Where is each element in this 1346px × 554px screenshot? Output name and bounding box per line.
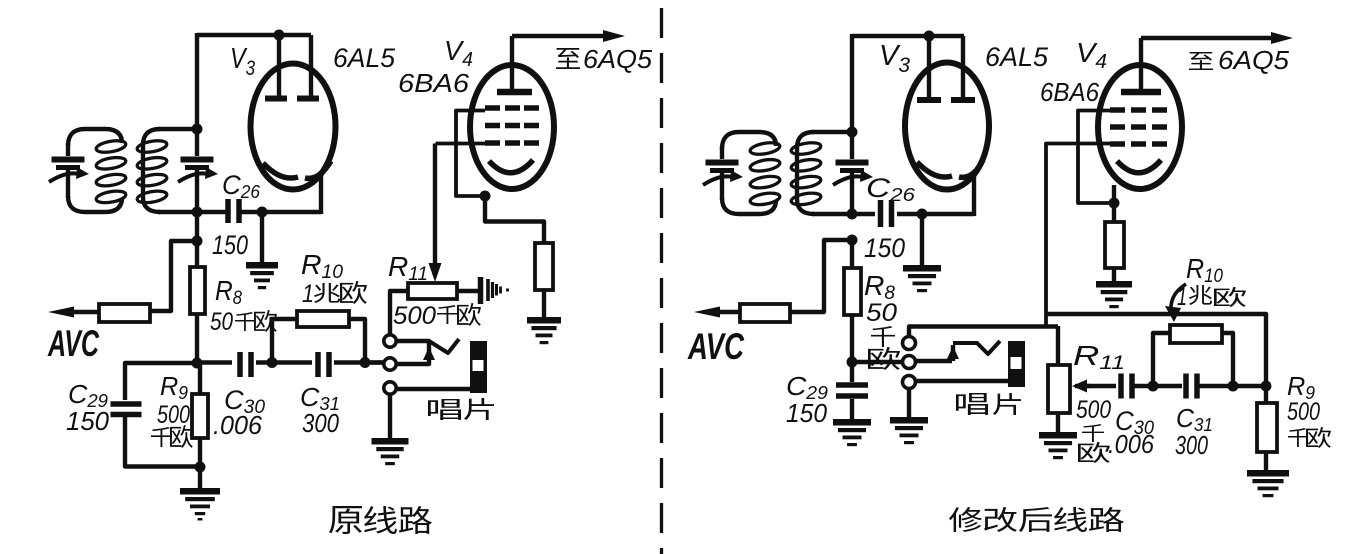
svg-text:.006: .006 [1108,429,1154,459]
wire middle contact [371,360,384,364]
coil of tank 1 right [749,141,780,207]
svg-text:.006: .006 [213,410,263,440]
resistor R9 right [1264,386,1268,403]
jack spring contact right [953,341,1000,354]
tank circuit 1 right [739,132,776,146]
wire top bus right [852,34,964,38]
node top-left junction [274,30,285,41]
resistor V4 cathode bias [535,243,553,290]
switch arm with arrow right [916,359,952,363]
wire bottom contact to cartridge right [915,379,1008,383]
wire to AVC resistor [150,241,197,311]
wire to ground right [920,214,924,265]
wire to 6AQ5 with arrow [512,34,612,38]
node switch feed right [847,357,858,368]
node cathode junction V4b [1109,198,1120,209]
capacitor C26 [225,199,231,223]
label to 6AQ5 right [1189,52,1213,70]
wire detector output right [852,212,875,216]
tube V4b envelope [1098,65,1182,189]
node tank top right [847,127,858,138]
wire cathode to resistor [485,196,544,244]
wiper arrow of R11 right [1075,384,1090,388]
grid rows of V4b [1110,107,1125,113]
svg-text:150: 150 [864,233,905,263]
node AVC junction [192,236,203,247]
wire bottom contact to cartridge [396,387,470,391]
tube V4 envelope [470,65,554,189]
node top-right junction [924,31,935,42]
svg-text:AVC: AVC [47,323,100,364]
resistor AVC decoupling [99,304,150,322]
wire top contact to R11 [390,291,409,335]
wire C31 to node [1199,384,1266,388]
potentiometer R11 [408,283,457,299]
svg-text:6AL5: 6AL5 [333,43,396,73]
resistor AVC right [740,304,790,322]
svg-text:300: 300 [302,408,339,438]
wire bottom contact to ground right [907,388,911,417]
node tank bottom right [847,209,858,220]
switch contact top right [903,337,916,350]
tank circuit 1 left [85,129,122,143]
wire C26 to cathode node right [897,212,974,216]
svg-text:6AL5: 6AL5 [985,42,1049,72]
potentiometer R11 right [1048,365,1070,413]
tube V3 envelope [251,64,336,190]
variable capacitor of tank 1 [49,157,89,183]
wire R11 to grid cap [457,289,479,293]
label phono [428,399,461,420]
resistor R8 right [850,240,854,268]
label kohm of R9 [151,427,172,447]
ground under switch right [890,417,928,444]
resistor V4b cathode bias [1105,222,1124,268]
capacitor C30 right [1118,374,1124,399]
capacitor C31 right [1183,374,1189,399]
variable capacitor of tank 1 right [703,160,743,186]
svg-text:150: 150 [66,406,110,436]
switch contact top [384,335,396,347]
cathode arc of V4b [1117,160,1161,173]
capacitor C30 [237,352,243,377]
svg-text:50: 50 [866,299,897,327]
wire C26 to cathode node [239,210,321,214]
wire suppressor bracket [456,111,485,197]
capacitor C29 right [850,362,854,382]
wire AVC takeoff vertical [195,212,199,268]
node cathode junction V4 [480,191,491,202]
node AVC junction right [847,235,858,246]
node C26 output [257,207,268,218]
capacitor C26 right [878,200,884,227]
switch arm with arrow [396,343,429,364]
wire to AVC resistor right [790,240,852,312]
caption original circuit [329,506,362,534]
resistor R10 right branch [1153,333,1170,386]
tube V3b envelope [905,63,989,190]
ground under R11 right [1039,432,1077,459]
wire bottom contact to ground [388,394,392,438]
cathode arcs of V3b [917,162,952,177]
variable capacitor of tank 2 [178,157,218,183]
ground under cathode resistor right [1096,281,1132,308]
wire suppressor bracket right [1078,111,1112,204]
ground under R9 [180,488,220,521]
resistor R10 branch [272,319,297,362]
wire top contact feed right [909,327,1058,338]
wire AVC arrow right [712,310,740,314]
wire to 6AQ5 right with arrow [1141,36,1280,40]
svg-text:6BA6: 6BA6 [398,68,470,98]
wire top contact to arm [396,339,430,343]
coil of tank 1 [95,139,126,205]
ground under cathode resistor [527,317,561,344]
diode plate 2 of V3 [309,35,313,96]
grid rows of V4 [485,105,500,111]
svg-text:6BA6: 6BA6 [1040,77,1099,107]
svg-text:500: 500 [1076,396,1111,424]
switch contact middle right [903,356,916,369]
phono cartridge [470,341,487,393]
wire control grid feed right [1046,144,1110,327]
svg-text:1: 1 [1177,283,1187,311]
wire R11 feed [1056,326,1060,365]
phono cartridge right [1008,341,1025,387]
node C30-C31 right [1148,381,1159,392]
ground under C26 node [246,262,278,289]
node R9 junction right [1261,381,1272,392]
ground under C26 node right [903,265,941,292]
label phono right [956,393,988,415]
wire cathode lead V4b [1112,185,1116,222]
resistor R8 [190,267,205,314]
wire detector output [197,210,226,214]
coil of tank 2 [136,139,167,205]
switch contact bottom [384,382,396,394]
svg-text:6AQ5: 6AQ5 [1218,45,1290,75]
variable capacitor of tank 2 right [833,160,873,186]
wire to ground from C26 node [260,212,264,262]
wire to middle contact right [852,360,902,364]
svg-text:6AQ5: 6AQ5 [583,44,653,74]
wire R11 to ground right [1056,413,1060,432]
svg-text:50: 50 [210,308,233,336]
svg-text:500: 500 [393,302,436,330]
node C30-C31 junction [267,357,278,368]
diode plate 1 of V3b [927,36,931,97]
ground under R9 right [1247,470,1289,497]
anode of V4 [497,89,532,96]
switch contact middle [384,358,396,370]
ground under C29 right [833,419,871,446]
node R9 ground junction [195,462,206,473]
label to 6AQ5 [556,48,580,69]
capacitor C31 [315,352,321,377]
wire main AF line [197,360,232,364]
wire AVC arrow [70,310,99,314]
wire grid bus to R9 node [1046,314,1266,386]
wire control grid stub [436,142,486,146]
leader arrow to R10 [1171,284,1186,310]
wire C30 to node [1133,384,1182,388]
switch contact bottom right [903,376,916,389]
svg-text:AVC: AVC [687,326,745,367]
grid cap symbol [478,277,484,304]
wire R9 to ground [198,467,202,488]
node C31 output [360,357,371,368]
svg-text:500: 500 [1287,398,1320,426]
anode of V4b [1121,89,1161,96]
cathode arc of V4 [489,160,533,173]
node tank bottom [192,207,203,218]
coil of tank 2 right [790,141,821,207]
tank circuit 2 left [143,129,160,212]
ground under switch [372,438,409,465]
wire wiper to C30 [1086,384,1116,388]
node tank top [192,124,203,135]
svg-text:1: 1 [302,280,314,308]
dashed separator line [660,8,663,554]
resistor R9 [198,363,202,394]
svg-text:300: 300 [1175,430,1208,460]
diode plate 2 of V3b [961,36,965,97]
jack spring contact [429,339,459,353]
svg-text:150: 150 [786,398,828,428]
diode plate 1 of V3 [277,35,281,96]
wire C29 branch [125,363,197,400]
svg-text:150: 150 [212,230,248,260]
capacitor C29 [111,401,142,407]
tank circuit 2 right [797,132,814,214]
wiper arrow of R11 from V4 grid [433,144,437,265]
wire top bus left [197,33,311,37]
caption modified circuit [949,507,982,532]
svg-text:500: 500 [157,401,190,429]
cathode arcs of V3 [263,163,298,178]
node detector load junction [192,358,203,369]
node C31 output right [1228,381,1239,392]
node C26 output right [917,209,928,220]
